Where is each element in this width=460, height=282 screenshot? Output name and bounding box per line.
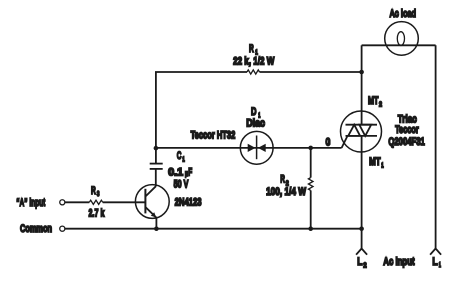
svg-text:1: 1 <box>381 162 383 169</box>
label C1 value 0.1 uF <box>168 167 192 179</box>
svg-text:Common: Common <box>20 223 52 235</box>
svg-text:Diac: Diac <box>246 118 265 130</box>
svg-text:2N4123: 2N4123 <box>175 197 202 209</box>
wire left vertical from R1 down to C1 <box>155 72 157 164</box>
label Diac <box>246 118 265 130</box>
label Teccor HT32 <box>191 130 236 142</box>
lamp Ac load <box>385 22 419 56</box>
node junction emitter / common rail <box>154 226 159 231</box>
label Ac input <box>383 256 414 268</box>
svg-text:2: 2 <box>379 101 382 108</box>
label "A" input <box>16 197 45 209</box>
svg-text:L: L <box>357 256 362 268</box>
wire R1 left segment <box>155 71 247 73</box>
diac D1 <box>240 131 273 164</box>
node junction left vertical / diac wire <box>154 146 159 151</box>
svg-text:Teccor: Teccor <box>395 124 419 136</box>
label R3 <box>91 185 100 198</box>
svg-text:G: G <box>325 136 330 148</box>
label MT2 <box>368 95 382 108</box>
node junction MT1 / common rail / L2 <box>359 226 364 231</box>
label G <box>325 136 330 148</box>
svg-text:2: 2 <box>363 262 366 269</box>
svg-text:3: 3 <box>97 191 100 198</box>
terminal L2 fork <box>356 249 367 255</box>
label R2 <box>280 174 289 188</box>
wire diac to G junction to triac gate <box>273 147 342 149</box>
svg-text:C: C <box>177 150 182 162</box>
label C1 voltage 50 V <box>174 178 189 190</box>
terminal Common <box>60 226 65 231</box>
svg-text:1: 1 <box>439 262 441 269</box>
wire A input terminal to R3 <box>65 201 89 203</box>
wire MT1 vertical <box>361 136 363 229</box>
wire diac net left segment <box>155 147 240 149</box>
svg-text:Ac load: Ac load <box>390 8 417 20</box>
svg-text:Ac input: Ac input <box>383 256 414 268</box>
svg-text:50 V: 50 V <box>174 178 189 190</box>
transistor Q1 2N4123 <box>135 185 169 219</box>
svg-text:MT: MT <box>369 156 381 168</box>
svg-text:“A” input: “A” input <box>16 197 45 209</box>
label L1 <box>432 256 441 269</box>
svg-text:1: 1 <box>182 157 184 164</box>
svg-text:Teccor HT32: Teccor HT32 <box>191 130 236 142</box>
triac U1 <box>341 111 382 152</box>
terminal L1 fork <box>430 249 441 255</box>
svg-text:MT: MT <box>368 95 379 107</box>
label Teccor <box>395 124 419 136</box>
label L2 <box>357 256 366 269</box>
wire R3 to transistor base <box>103 201 146 203</box>
resistor R2 <box>308 148 313 229</box>
wire emitter to common rail <box>155 218 157 229</box>
capacitor C1 <box>150 164 163 169</box>
resistor R3 <box>89 200 102 204</box>
svg-text:R: R <box>249 43 254 55</box>
wire C1 to transistor collector <box>155 169 157 187</box>
label R3 value 2.7 k <box>89 207 105 219</box>
wire MT2 vertical <box>361 45 363 124</box>
label C1 <box>177 150 185 163</box>
label MT1 <box>369 156 384 170</box>
label D1 <box>251 106 260 119</box>
svg-text:22 k, 1/2 W: 22 k, 1/2 W <box>233 56 274 68</box>
label 2N4123 <box>175 197 202 209</box>
label R1 value 22 k, 1/2 W <box>233 56 274 68</box>
node junction R2 / common rail <box>308 226 313 231</box>
label R2 value 100, 1/4 W <box>266 186 306 198</box>
svg-text:F: F <box>188 167 192 179</box>
svg-text:2.7 k: 2.7 k <box>89 207 105 219</box>
svg-text:D: D <box>251 106 257 118</box>
svg-text:R: R <box>91 185 96 197</box>
label Ac load <box>390 8 417 20</box>
label Common <box>20 223 52 235</box>
wire through diac <box>240 147 273 149</box>
resistor R1 <box>247 70 260 74</box>
svg-text:100, 1/4 W: 100, 1/4 W <box>266 186 306 198</box>
wire right vertical L1 <box>435 45 437 248</box>
wire R1 right segment <box>260 71 362 73</box>
label Triac <box>398 114 417 126</box>
svg-text:Q2004F31: Q2004F31 <box>388 136 425 148</box>
wire L2 stub <box>361 229 363 249</box>
label Q2004F31 <box>388 136 425 148</box>
svg-text:R: R <box>280 174 285 186</box>
node junction R1 / MT2 <box>359 70 364 75</box>
label R1 <box>249 43 258 57</box>
wire top to Ac load <box>362 44 436 46</box>
terminal "A" input <box>60 200 65 205</box>
svg-text:0.1: 0.1 <box>168 167 184 179</box>
wire common rail <box>65 228 362 230</box>
svg-text:L: L <box>432 256 437 268</box>
node junction G / R2 <box>308 146 313 151</box>
